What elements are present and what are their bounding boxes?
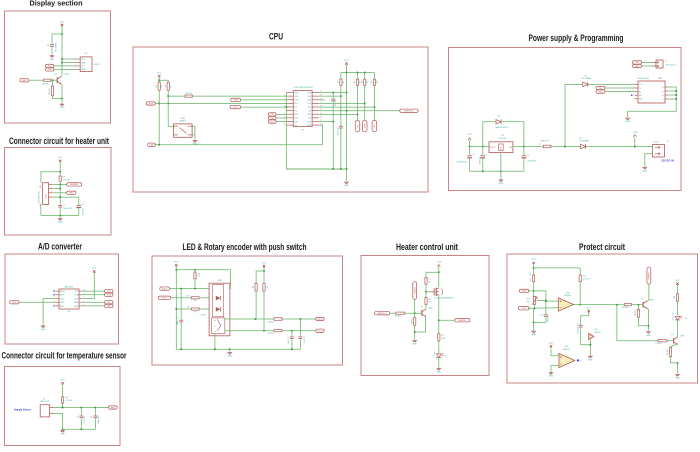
wire rv1 bottom — [534, 304, 536, 308]
wire to HEATER+ (heater) — [439, 319, 455, 321]
power flag VCC (protect L) — [531, 259, 536, 264]
svg-text:HEATER-: HEATER- — [648, 272, 651, 280]
wire TX0 to IC — [276, 113, 286, 115]
wire gnd drop (pwr) — [500, 171, 502, 179]
wire VCC down to R4 — [59, 162, 61, 176]
svg-text:GND: GND — [81, 62, 86, 64]
svg-text:GND: GND — [227, 356, 232, 358]
wire gate res branch — [426, 272, 439, 277]
capacitor C1 bulk 470uF — [457, 147, 474, 172]
svg-text:HEATER_O: HEATER_O — [378, 312, 388, 315]
svg-text:Connector circuit for heater u: Connector circuit for heater unit — [9, 136, 109, 146]
wire R7 top — [194, 270, 196, 272]
svg-text:VCC: VCC — [92, 268, 97, 270]
wire capcol B — [291, 331, 293, 337]
svg-text:VCC: VCC — [174, 262, 179, 264]
svg-text:D4: D4 — [497, 115, 499, 117]
svg-text:D1: D1 — [580, 138, 582, 140]
svg-text:SCL: SCL — [75, 291, 78, 293]
ground GND (jack) — [642, 167, 647, 172]
resistor R19 — [361, 79, 368, 85]
svg-text:Q4: Q4 — [671, 334, 673, 336]
svg-text:GND: GND — [58, 222, 63, 224]
wire row EN to IC — [192, 95, 286, 97]
svg-text:10k R20: 10k R20 — [622, 307, 628, 309]
wire R13 to temp row — [533, 282, 535, 297]
wire row EN left — [168, 95, 185, 97]
node junction base/R21 — [637, 304, 639, 306]
node junction row1 c14 — [332, 92, 334, 94]
svg-text:R11: R11 — [161, 85, 163, 88]
resistor R18 — [354, 79, 361, 85]
IC U5 MCP USB programmer — [633, 78, 668, 103]
ground GND (display bottom) — [60, 104, 65, 109]
svg-text:R20: R20 — [376, 81, 378, 84]
resistor R18 (heater) — [438, 334, 446, 341]
wire R11 pulldown top — [52, 80, 54, 86]
power flag VCC (protect B) — [549, 343, 554, 348]
svg-text:100: 100 — [428, 302, 431, 304]
connector U1 UBLOCK2P — [40, 398, 53, 417]
svg-text:U1: U1 — [43, 398, 45, 400]
section frame CPU — [133, 47, 428, 192]
svg-text:C1: C1 — [63, 205, 65, 207]
svg-text:VCC: VCC — [262, 262, 267, 264]
wire heater row — [319, 110, 400, 112]
svg-text:10k: 10k — [371, 81, 373, 84]
power flag VCC (protect mid) — [587, 307, 592, 312]
wire BOOT to IC — [276, 121, 286, 123]
svg-text:10uF-25V: 10uF-25V — [335, 100, 337, 107]
node junction R11/row RST — [158, 103, 160, 105]
svg-text:LM2903: LM2903 — [563, 349, 570, 351]
svg-text:R14: R14 — [583, 276, 586, 278]
section frame LED & Rotary encoder with push switch — [152, 256, 343, 365]
wire gnd drop (rot) — [229, 349, 231, 351]
svg-text:C10: C10 — [541, 315, 544, 317]
wire VCC down (cpu left) — [158, 78, 160, 145]
wire R20 column — [373, 85, 375, 120]
ground GND (pwr) — [499, 180, 504, 185]
wire drain down — [438, 294, 440, 333]
svg-text:10k: 10k — [198, 273, 201, 275]
node junction base/HEATER label — [414, 312, 416, 314]
wire R14 top — [579, 268, 581, 275]
section title LED & Rotary encoder with push switch — [183, 242, 307, 252]
svg-text:L1: L1 — [539, 143, 541, 145]
wire Q1 collector — [61, 76, 62, 78]
resistor R7 — [194, 272, 201, 279]
wire vcc right down — [263, 267, 265, 283]
wire mcp txd — [605, 87, 635, 89]
svg-text:R4: R4 — [63, 176, 65, 178]
trimmer RV1 — [527, 296, 539, 305]
svg-text:VCC: VCC — [157, 73, 162, 75]
wire SW1 right pins to gnd — [192, 126, 195, 139]
svg-text:UBLOCK2P: UBLOCK2P — [40, 401, 50, 403]
section frame Display section — [5, 11, 111, 123]
wire R11 to bottom — [53, 96, 63, 99]
svg-text:100uF-25V: 100uF-25V — [479, 156, 481, 165]
node HEATER+ label (conn) — [67, 183, 82, 186]
svg-text:470: 470 — [674, 296, 676, 299]
node junction bus vcc — [346, 72, 348, 74]
node junction bus r18 — [357, 72, 359, 74]
node VOL label (A/D) — [105, 301, 113, 304]
ground GND (q4) — [675, 374, 680, 379]
wire R12 column — [168, 90, 173, 126]
wire to ground (display) — [61, 98, 63, 103]
node junction VCC/cap (display) — [61, 33, 63, 35]
wire opamp out row — [574, 304, 625, 306]
section title Protect circuit — [579, 242, 625, 252]
svg-text:ADS1015: ADS1015 — [65, 286, 74, 289]
ground GND (display cap) — [50, 55, 55, 60]
svg-text:A/D converter: A/D converter — [38, 242, 82, 252]
node RO_B label — [316, 329, 324, 332]
node junction emitter gnd — [677, 362, 679, 364]
resistor R23 (protect) — [674, 294, 679, 301]
resistor R17 (heater) — [411, 318, 416, 326]
section title Display section — [30, 0, 83, 8]
node junction R19 row4 — [364, 103, 366, 105]
svg-text:SEN: SEN — [12, 302, 17, 304]
wire R17 to EN row — [340, 85, 342, 126]
svg-text:1/4W: 1/4W — [441, 338, 445, 340]
node junction mcp loop b — [675, 94, 677, 96]
text N$ output marker — [577, 359, 581, 362]
wire AIN2 out (A/D) — [82, 305, 104, 307]
node SEN label (temp conn) — [109, 406, 118, 409]
op-amp U2 ADS1015 — [54, 286, 85, 313]
wire left gnd column (cpu) — [286, 93, 346, 170]
svg-text:1: 1 — [52, 406, 53, 408]
resistor R16 (heater) — [395, 312, 405, 318]
wire vcc to +in (U7B) — [551, 349, 559, 356]
node GND label (conn) — [67, 191, 76, 194]
wire C10 top — [545, 301, 547, 314]
ground GND (heater conn) — [58, 218, 63, 223]
svg-text:Power supply & Programming: Power supply & Programming — [529, 33, 624, 43]
resistor R13 (protect) — [530, 273, 535, 282]
node junction mcp loop c — [675, 98, 677, 100]
wire U7C gnd — [589, 340, 591, 356]
resistor R10 — [42, 79, 51, 85]
node junction gnd bus col — [346, 168, 348, 170]
svg-text:C6: C6 — [90, 416, 92, 418]
wire switch row — [170, 288, 210, 290]
wire main line right — [586, 146, 653, 148]
wire vcc down (protect) — [533, 264, 535, 275]
wire bottom bus (temp conn) — [63, 428, 96, 430]
svg-text:ESP-WROOM-02D: ESP-WROOM-02D — [294, 87, 313, 89]
text 12V DC-IN — [661, 159, 674, 163]
node junction R20 row5 — [373, 106, 375, 108]
node junction c10 top — [545, 300, 547, 302]
svg-text:JP-ST-2P-2.0: JP-ST-2P-2.0 — [666, 64, 677, 66]
svg-text:10: 10 — [284, 124, 286, 126]
node junction mcp loop a — [675, 90, 677, 92]
svg-text:+12V: +12V — [632, 132, 638, 134]
node junction bus enc — [214, 348, 216, 350]
wire main line mid2 — [551, 146, 581, 148]
svg-text:SW_P: SW_P — [162, 288, 168, 290]
wire R14 down — [579, 282, 581, 305]
capacitor C10 (protect) — [541, 315, 550, 323]
op-amp U7C spare — [589, 329, 601, 340]
svg-text:+12V: +12V — [436, 262, 442, 264]
wire side branch to connector — [41, 172, 60, 183]
svg-text:GND: GND — [625, 121, 630, 123]
node RXD label (pwr) — [633, 64, 642, 67]
ground GND (heater led) — [436, 368, 441, 373]
svg-text:C2: C2 — [485, 154, 487, 156]
svg-text:GND: GND — [436, 372, 441, 374]
svg-text:TXD: TXD — [599, 88, 604, 90]
node junction bottom bus — [59, 215, 61, 217]
svg-text:LM2903: LM2903 — [564, 295, 571, 297]
node SDA vertical label (cpu) — [362, 120, 367, 132]
wire VCC down (cpu right) — [346, 65, 348, 73]
svg-text:GND: GND — [41, 329, 46, 331]
wire R16 to base — [405, 312, 422, 314]
node junction 12v/gate res — [438, 271, 440, 273]
wire row7 right — [319, 113, 357, 115]
wire C2 top — [78, 197, 80, 205]
node junction gnd bus C14 — [332, 168, 334, 170]
node junction pin1/R4 — [59, 183, 61, 185]
wire OLED VCC pin — [62, 58, 77, 60]
node junction C5/sense — [80, 407, 82, 409]
svg-text:R6: R6 — [428, 299, 430, 301]
resistor R20 (protect) — [622, 304, 632, 309]
svg-text:GND: GND — [531, 334, 536, 336]
svg-text:SCL: SCL — [357, 124, 359, 128]
power flag VCC (cpu left) — [157, 73, 162, 78]
wire pulldown bottom — [414, 325, 416, 339]
svg-text:10k R21: 10k R21 — [635, 310, 637, 316]
capacitor C7 (rot) — [287, 337, 294, 344]
node GND label (cpu bottom) — [148, 143, 156, 146]
svg-text:GND: GND — [69, 193, 74, 195]
wire row5 to IC — [241, 106, 287, 108]
node junction R18 row7 — [357, 113, 359, 115]
node RXD label (mcp) — [596, 90, 605, 93]
wire C2 bottom — [78, 208, 80, 215]
svg-text:R17: R17 — [343, 81, 345, 84]
wire mcp gnd drop — [627, 111, 629, 117]
wire C6 column bottom — [94, 418, 96, 429]
wire R6 to sense line — [62, 403, 64, 407]
wire D2 branch down — [564, 84, 566, 146]
node junction gnd col/c10 bus — [533, 322, 535, 324]
resistor R14 (protect) — [579, 275, 590, 282]
wire pullup B down — [263, 291, 265, 331]
node junction rail/top — [175, 269, 177, 271]
svg-text:D2: D2 — [585, 75, 587, 77]
wire C5 column bottom — [80, 418, 82, 429]
node junction emitter/R21 — [648, 325, 650, 327]
svg-text:IO0: IO0 — [308, 110, 311, 112]
svg-text:470: 470 — [187, 307, 190, 309]
svg-text:Protect circuit: Protect circuit — [579, 242, 625, 252]
resistor R17 — [338, 79, 345, 85]
svg-text:100nF-25V: 100nF-25V — [338, 128, 340, 135]
node junction gnd bus C15 — [340, 168, 342, 170]
capacitor C2 100uF — [479, 147, 487, 172]
transistor Q2 P-MOSFET — [431, 288, 454, 300]
svg-text:10k R24: 10k R24 — [667, 349, 669, 355]
svg-text:VCC: VCC — [549, 343, 554, 345]
svg-text:LXDC55: LXDC55 — [499, 138, 507, 140]
node junction bus/gnd — [62, 428, 64, 430]
svg-text:C13 100nF-25V: C13 100nF-25V — [577, 323, 579, 334]
svg-text:RST: RST — [294, 103, 297, 105]
wire bottom bus (pwr) — [470, 170, 524, 172]
ground GND (U7C) — [588, 356, 593, 361]
wire rv1 wiper — [537, 299, 546, 301]
svg-text:VCC: VCC — [587, 307, 592, 309]
section frame Connector circuit for temperature sensor — [5, 367, 121, 446]
node junction R17 row EN — [340, 95, 342, 97]
node HEATER_O label (heater) — [375, 312, 390, 315]
svg-text:IO14: IO14 — [307, 96, 311, 98]
wire top line (protect) — [534, 267, 581, 269]
wire C6 column top — [94, 408, 96, 416]
svg-text:100nF: 100nF — [177, 320, 179, 325]
resistor R22 (protect) — [655, 340, 667, 345]
resistor R20 — [371, 79, 378, 85]
node junction gate node — [425, 291, 427, 293]
wire C13 bottom — [581, 327, 591, 345]
wire ovh row to opamp- — [528, 307, 558, 310]
svg-text:470: 470 — [441, 335, 444, 337]
wire R18 top — [357, 73, 359, 80]
svg-text:4.7K-1%: 4.7K-1% — [583, 279, 590, 281]
svg-text:13: 13 — [320, 116, 322, 118]
node junction C14 row9 — [332, 121, 334, 123]
svg-text:100 R22: 100 R22 — [655, 343, 661, 345]
node SW_P label (rot) — [160, 287, 170, 290]
svg-text:VOUT: VOUT — [490, 147, 496, 149]
power flag +12V (heater) — [436, 262, 442, 267]
wire GND pin (A/D) — [43, 298, 56, 300]
power flag VCC (rot left) — [174, 262, 179, 267]
svg-text:10k R11: 10k R11 — [49, 88, 51, 95]
node LED vertical label (cpu) — [372, 120, 377, 132]
wire RX0 to IC — [276, 117, 286, 119]
resistor R13 — [185, 93, 192, 97]
node junction bus1 left col — [158, 144, 160, 146]
wire OLED GND pin — [62, 62, 77, 64]
svg-text:RST: RST — [639, 95, 642, 97]
resistor R5 (heater) — [425, 278, 431, 285]
node TMP label (A/D) — [105, 304, 113, 307]
power flag VCC (display) — [60, 21, 65, 26]
node junction main/D2 branch — [564, 146, 566, 148]
connector JP1 — [653, 60, 677, 68]
svg-text:RXD: RXD — [635, 66, 640, 68]
wire gnd to -in (U7B) — [551, 365, 559, 372]
svg-text:100nF-25V: 100nF-25V — [54, 43, 56, 53]
power flag VCC (heater conn) — [58, 157, 63, 162]
wire +12V down — [438, 267, 440, 288]
wire bottom bus (rot) — [176, 348, 300, 350]
node junction bus reg — [500, 170, 502, 172]
wire vcc drop (pwr) — [469, 140, 471, 146]
wire Q3 collector diag — [425, 308, 427, 309]
node junction OLED gnd — [61, 62, 63, 64]
node junction wiper/+in — [545, 300, 547, 302]
svg-text:LM2903: LM2903 — [594, 332, 600, 334]
wire C1 bottom — [59, 208, 61, 216]
text net led2 — [187, 307, 190, 309]
section frame A/D converter — [5, 254, 119, 344]
svg-text:GND: GND — [149, 145, 154, 147]
node junction R12/row RST — [167, 103, 169, 105]
svg-text:100nF-25V: 100nF-25V — [547, 315, 549, 322]
wire cap column (rot) — [180, 289, 182, 320]
wire +12V up — [634, 137, 636, 146]
svg-text:GND: GND — [499, 183, 504, 185]
svg-text:VCC: VCC — [344, 60, 349, 62]
wire R19 column — [364, 85, 366, 120]
wire row5 right — [319, 106, 374, 108]
node junction vcc/main — [469, 146, 471, 148]
wire resistor to base Q1 — [51, 79, 57, 81]
node junction swrow/R7 — [194, 288, 196, 290]
node junction OLED vcc — [61, 58, 63, 60]
node junction main/bypass R — [523, 146, 525, 148]
svg-text:GND: GND — [549, 376, 554, 378]
svg-text:220uF 25V: 220uF 25V — [527, 161, 537, 163]
svg-text:VCC: VCC — [531, 259, 536, 261]
svg-text:R6: R6 — [65, 397, 67, 399]
svg-text:D+: D+ — [662, 87, 664, 89]
section title Connector circuit for temperature sensor — [2, 351, 127, 361]
wire gnd column (protect L) — [533, 308, 535, 330]
wire OLED SDA pin — [54, 68, 77, 70]
svg-text:Q2 DM-B4-SSM3J328R: Q2 DM-B4-SSM3J328R — [434, 298, 454, 300]
svg-text:AIN0: AIN0 — [60, 301, 64, 304]
capacitor C13 (protect) — [577, 323, 582, 334]
svg-text:IO12: IO12 — [307, 100, 311, 102]
wire temp row to opamp+ — [528, 291, 558, 301]
resistor R8 — [191, 297, 199, 303]
wire enc common down — [214, 334, 216, 350]
wire vcc down (protect R) — [677, 285, 679, 294]
wire capcol A bottom — [299, 339, 301, 349]
node junction main/+12V — [634, 146, 636, 148]
resistor R11 — [49, 86, 54, 96]
wire HEATER label drop — [414, 299, 416, 313]
svg-text:IO0: IO0 — [294, 125, 297, 127]
svg-text:10k: 10k — [530, 273, 532, 276]
svg-text:IO4: IO4 — [294, 110, 297, 112]
wire led1 row — [171, 297, 191, 299]
node junction bus c7 — [291, 348, 293, 350]
rotary encoder SW2 — [201, 280, 230, 336]
power flag VCC (A/D) — [92, 268, 97, 273]
capacitor C4 — [47, 43, 56, 53]
svg-text:AIN1: AIN1 — [60, 305, 64, 308]
svg-text:4.7K-1W: 4.7K-1W — [63, 179, 70, 181]
svg-text:Display section: Display section — [30, 0, 83, 8]
node junction A/pullup — [254, 318, 256, 320]
capacitor C2 — [77, 204, 84, 216]
wire RXD to JP1 — [642, 65, 657, 67]
svg-text:100nF-25V: 100nF-25V — [98, 415, 100, 424]
